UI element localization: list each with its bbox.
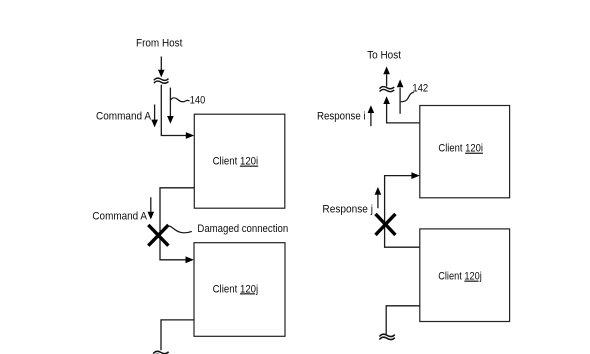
svg-text:Damaged connection: Damaged connection [197, 223, 288, 235]
svg-text:Client 120j: Client 120j [213, 283, 259, 295]
arrowhead up to host [383, 66, 390, 74]
reference numeral 140 [190, 95, 205, 107]
break symbol (squiggle) on to-host line [380, 87, 395, 92]
arrow up beside Response j [375, 187, 382, 208]
label right Client 120j [438, 271, 482, 283]
arrowhead down into break (140 line) [158, 70, 165, 78]
arrowhead right into right Client 120i [411, 172, 419, 179]
svg-text:142: 142 [412, 82, 428, 94]
label "Command A" (upper) [96, 111, 151, 123]
label "Damaged connection" [197, 223, 288, 235]
arrow down beside lower Command A [148, 197, 155, 219]
wire from right Client 120j up through X into Client 120i [385, 176, 420, 248]
wire from right Client 120i up to break [387, 104, 420, 123]
label left Client 120j [213, 283, 259, 295]
label right Client 120i [438, 143, 483, 155]
arrow down beside upper Command A [151, 105, 158, 128]
arrowhead down on 140 line [167, 116, 174, 124]
reference numeral 142 [412, 82, 428, 94]
label left Client 120i [213, 156, 259, 168]
wire to-host upper segment [386, 74, 388, 86]
arrowhead up on 142 line [397, 79, 404, 87]
wire from left Client 120j to ground [161, 320, 194, 350]
svg-text:140: 140 [190, 95, 205, 107]
box left Client 120i [194, 114, 284, 208]
wire from-host upper segment [160, 57, 162, 71]
wire from right Client 120j to ground [386, 306, 420, 334]
svg-text:Client 120j: Client 120j [438, 271, 482, 283]
wire from break down and right into Client 120i [161, 85, 186, 136]
svg-text:Command A: Command A [92, 210, 147, 222]
leader squiggle to "Damaged connection" [167, 226, 192, 233]
arrow up beside Response i [368, 105, 375, 126]
label "Command A" (lower) [92, 210, 147, 222]
svg-text:Client 120i: Client 120i [213, 156, 259, 168]
ground break squiggle (left, clipped at bottom) [153, 351, 168, 354]
arrowhead right into left Client 120j [186, 256, 194, 263]
leader squiggle to 142 [401, 92, 414, 101]
wire from left Client 120i down to damaged connection and Client 120j [160, 188, 194, 260]
wire 142 (parallel short line) [399, 88, 401, 114]
label "Response i" [317, 111, 366, 123]
box right Client 120i [420, 106, 510, 198]
leader squiggle to 140 [170, 98, 189, 102]
svg-text:Client 120i: Client 120i [438, 143, 483, 155]
box right Client 120j [420, 229, 510, 322]
arrowhead up below break [383, 96, 390, 104]
label "Response j" [322, 204, 373, 216]
svg-text:Response i: Response i [317, 111, 366, 123]
break symbol (squiggle) on from-host line [154, 78, 169, 83]
svg-text:To Host: To Host [367, 49, 402, 61]
ground break squiggle (right) [379, 334, 394, 339]
label "To Host" [367, 49, 402, 61]
svg-text:Command A: Command A [96, 111, 151, 123]
label "From Host" [136, 38, 183, 50]
svg-text:Response j: Response j [322, 204, 373, 216]
wire 140 (parallel short line) [169, 88, 171, 117]
arrowhead right into left Client 120i [186, 132, 194, 139]
box left Client 120j [194, 243, 285, 337]
X damaged connection (left) [148, 225, 168, 246]
svg-text:From Host: From Host [136, 38, 183, 50]
X damaged connection (right) [376, 214, 396, 235]
